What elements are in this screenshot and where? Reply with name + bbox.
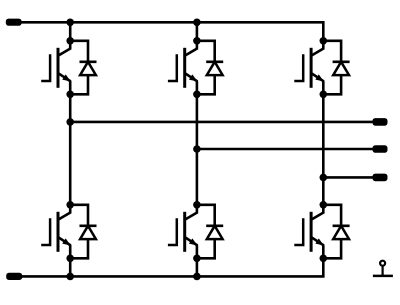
junction: collector node of Q4 (193, 201, 201, 209)
wire: phase V output line (197, 148, 379, 151)
junction: collector node of Q5 (320, 37, 328, 45)
transistor Q2 (IGBT) (41, 205, 71, 258)
junction: phase V tap on leg 2 (193, 145, 201, 153)
wire: top bus to collector of Q3 (leg 2) (196, 22, 199, 41)
diode D2 (freewheeling, antiparallel with Q2) (70, 205, 96, 258)
junction: phase U tap on leg 1 (66, 118, 74, 126)
wire: positive DC bus (top rail), corner down to leg 3 (14, 22, 323, 41)
diode D1 (freewheeling, antiparallel with Q1) (70, 41, 96, 95)
junction: phase W tap on leg 3 (320, 174, 328, 182)
transistor Q1 (IGBT) (41, 41, 71, 95)
wire: emitter of Q4 to bottom bus (leg 2) (196, 258, 199, 276)
junction: collector node of Q6 (320, 201, 328, 209)
junction: emitter node of Q3 (193, 91, 201, 99)
wire: leg 2 midpoint (phase node) vertical segment (196, 94, 199, 205)
junction: emitter node of Q5 (320, 91, 328, 99)
transistor Q4 (IGBT) (168, 205, 198, 258)
wire: leg 3 midpoint (phase node) vertical segment (322, 94, 325, 205)
diode D5 (freewheeling, antiparallel with Q5) (323, 41, 349, 95)
diode D6 (freewheeling, antiparallel with Q6) (323, 205, 349, 258)
diode D3 (freewheeling, antiparallel with Q3) (197, 41, 223, 95)
junction: collector node of Q3 (193, 37, 201, 45)
transistor Q5 (IGBT) (294, 41, 324, 95)
phase U output terminal (right) (373, 118, 388, 126)
diode D4 (freewheeling, antiparallel with Q4) (197, 205, 223, 258)
junction: leg 1 on positive bus (66, 19, 74, 27)
junction: collector node of Q1 (66, 37, 74, 45)
junction: emitter node of Q4 (193, 254, 201, 262)
junction: emitter node of Q1 (66, 91, 74, 99)
junction: emitter node of Q6 (320, 254, 328, 262)
transistor Q6 (IGBT) (294, 205, 324, 258)
transistor Q3 (IGBT) (168, 41, 198, 95)
wire: top bus to collector of Q1 (leg 1) (69, 22, 72, 41)
phase W output terminal (right) (373, 174, 388, 182)
wire: leg 1 midpoint (phase node) vertical segment (69, 94, 72, 205)
junction: leg 2 on positive bus (193, 19, 201, 27)
wire: negative DC bus (bottom rail), corner up to leg 3 (14, 258, 323, 276)
junction: leg 2 on negative bus (193, 273, 201, 281)
junction: collector node of Q2 (66, 201, 74, 209)
neutral/reference pin symbol (bottom right) (373, 261, 393, 276)
wire: phase U output line (70, 121, 379, 124)
junction: emitter node of Q2 (66, 254, 74, 262)
DC- input terminal (bottom left) (6, 273, 22, 280)
junction: leg 1 on negative bus (66, 273, 74, 281)
phase V output terminal (right) (373, 145, 388, 153)
wire: phase W output line (323, 176, 379, 179)
DC+ input terminal (top left) (6, 19, 22, 26)
wire: emitter of Q2 to bottom bus (leg 1) (69, 258, 72, 276)
